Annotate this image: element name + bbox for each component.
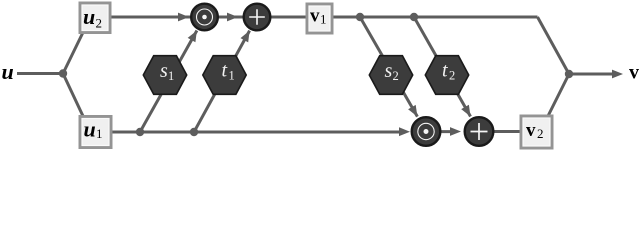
arrowhead: t1 edge into top plus xyxy=(241,31,250,43)
svg-text:1: 1 xyxy=(96,126,103,141)
wire: s1 edge from bottom junction to top mult xyxy=(140,31,197,133)
wire: t1 edge from bottom junction to top plus xyxy=(194,31,250,132)
operator node: bottom add xyxy=(465,117,494,146)
box u1 xyxy=(80,117,111,148)
operator node: top add xyxy=(244,4,271,31)
filter hexagon s2 xyxy=(369,56,412,95)
wire: top row u2 to bend xyxy=(95,16,538,19)
svg-text:2: 2 xyxy=(393,69,399,83)
svg-text:1: 1 xyxy=(320,12,327,27)
wire: input u to left junction xyxy=(17,72,63,75)
svg-text:v: v xyxy=(526,120,536,141)
arrowhead: s2 edge into bottom mult xyxy=(408,105,417,117)
arrowhead: output to v xyxy=(612,70,623,79)
box u2 xyxy=(80,3,110,33)
svg-text:v: v xyxy=(310,6,320,27)
arrowhead: top mult to top plus xyxy=(227,13,238,22)
svg-text:2: 2 xyxy=(96,16,103,31)
svg-text:t: t xyxy=(222,60,228,82)
box v2 xyxy=(521,116,552,148)
node: left junction dot xyxy=(59,69,67,77)
wire: top bend down to right junction xyxy=(538,17,570,74)
svg-text:2: 2 xyxy=(537,126,544,141)
wire: bottom row u1 to circle xyxy=(96,131,399,134)
node: bottom junction dot for s1 xyxy=(136,128,144,136)
wire: right junction to output arrow xyxy=(569,73,614,76)
filter hexagon s1 xyxy=(143,56,186,95)
svg-text:1: 1 xyxy=(168,69,174,83)
wire: left junction down to box u1 xyxy=(63,74,90,132)
svg-text:s: s xyxy=(385,60,393,82)
operator node: top pointwise multiply xyxy=(191,4,218,31)
node: top junction dot for t2 xyxy=(410,13,418,21)
svg-text:2: 2 xyxy=(449,69,455,83)
arrowhead: into bottom mult xyxy=(399,127,410,136)
filter hexagon t1 xyxy=(203,56,246,95)
svg-text:v: v xyxy=(629,62,639,84)
wire: s2 edge from top junction to bottom mult xyxy=(360,17,417,117)
svg-text:u: u xyxy=(2,59,14,84)
filter hexagon t2 xyxy=(425,56,468,95)
svg-text:s: s xyxy=(160,60,168,82)
svg-text:t: t xyxy=(442,60,448,82)
wire: t2 edge from top junction to bottom plus xyxy=(414,17,471,117)
box v1 xyxy=(307,4,332,33)
node: bottom junction dot for t1 xyxy=(190,128,198,136)
arrowhead: into top mult xyxy=(178,13,189,22)
svg-text:u: u xyxy=(84,117,96,142)
operator node: bottom pointwise multiply xyxy=(412,117,441,146)
arrowhead: t2 edge into bottom plus xyxy=(461,105,470,117)
wire: box v2 up to right junction xyxy=(548,74,569,116)
arrowhead: bottom mult to bottom plus xyxy=(450,127,461,136)
wire: bottom mult to arrowhead before bottom plus xyxy=(426,130,451,133)
node: top junction dot for s2 xyxy=(356,13,364,21)
svg-text:u: u xyxy=(83,4,95,29)
wire: left junction up to box u2 xyxy=(63,18,90,74)
node: right junction dot xyxy=(565,70,573,78)
wire: bottom plus to box v2 xyxy=(479,130,522,133)
arrowhead: s1 edge into top mult xyxy=(188,31,197,43)
svg-text:1: 1 xyxy=(229,68,235,82)
